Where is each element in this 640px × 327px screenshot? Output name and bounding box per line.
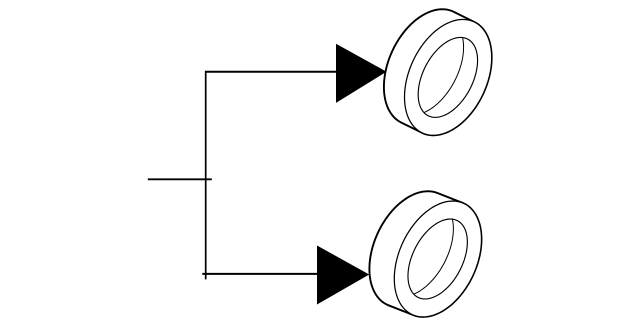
ring 2 hole (front inner edge) [408, 219, 467, 299]
ring 1 bore wall arc [393, 20, 464, 115]
ring 1 hole (front inner edge) [418, 37, 477, 117]
bottom branch horizontal line [202, 273, 318, 275]
ring 2 bore wall arc [383, 202, 454, 297]
ring 1 silhouette (seal body outline) [384, 9, 492, 135]
ring 2 front face outer edge [394, 201, 481, 317]
vertical branch line [205, 71, 207, 279]
arrow to bottom ring [317, 246, 369, 305]
ring 2 silhouette (seal body outline) [369, 191, 481, 317]
ring 1 front face outer edge [405, 19, 492, 135]
leader stub line (left) [148, 178, 212, 180]
top branch horizontal line [205, 71, 337, 73]
arrow to top ring [336, 44, 387, 103]
